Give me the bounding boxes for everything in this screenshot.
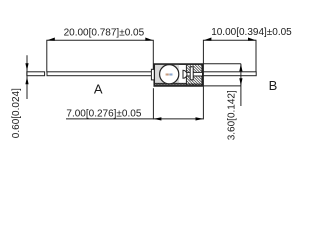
left end collar [151, 69, 154, 80]
tiny colored marking inside circle [166, 74, 173, 76]
svg-text:20.00[0.787]±0.05: 20.00[0.787]±0.05 [64, 28, 145, 39]
svg-text:B: B [269, 78, 278, 93]
dimension 7.00 line [66, 118, 203, 120]
dimension 0.60 arrow down [25, 63, 28, 71]
dimension 20.00 line [47, 39, 154, 41]
band top boundary line [155, 82, 186, 84]
svg-text:A: A [94, 82, 103, 97]
dimension 20.00 arrow right [145, 38, 153, 41]
dimension 3.60 arrow down [239, 78, 242, 86]
dimension 10.00 line [203, 39, 256, 41]
wire lead B (right) [202, 72, 256, 76]
internal collar (right) [190, 67, 193, 80]
dimension 7.00 arrow right [196, 117, 204, 120]
shared extension line at body right face [202, 40, 204, 120]
dimension 0.60 arrow up [25, 77, 28, 85]
internal element big circle [160, 65, 179, 84]
dimension 7.00 extension line left [152, 88, 154, 119]
svg-text:10.00[0.394]±0.05: 10.00[0.394]±0.05 [211, 27, 292, 38]
dimension 3.60 vertical line [240, 64, 242, 106]
wire lead A segment 1 (left of break) [27, 72, 45, 76]
svg-text:0.60[0.024]: 0.60[0.024] [11, 88, 22, 138]
dimension 20.00 extension line right [152, 40, 154, 70]
svg-text:3.60[0.142]: 3.60[0.142] [227, 90, 238, 140]
internal lead channel [185, 72, 203, 76]
dimension 7.00 arrow left [154, 117, 162, 120]
dimension 10.00 extension line right [255, 40, 257, 72]
hatch block left boundary line [185, 65, 187, 85]
dimension 3.60 bottom extension stub [203, 85, 241, 87]
dimension 20.00 extension line left [46, 40, 48, 73]
wire lead A segment 2 (break to body) [47, 72, 152, 76]
internal small disc [183, 70, 187, 78]
dimension 3.60 top extension stub [203, 63, 241, 65]
dimension 10.00 arrow left [203, 38, 211, 41]
component body outline [154, 64, 202, 86]
dimension 10.00 arrow right [248, 38, 256, 41]
svg-text:7.00[0.276]±0.05: 7.00[0.276]±0.05 [66, 108, 141, 119]
dimension 20.00 arrow left [47, 38, 55, 41]
dimension 3.60 arrow up [239, 64, 242, 72]
body interior gray fill [155, 65, 179, 83]
dimension 0.60 vertical line [26, 55, 28, 99]
